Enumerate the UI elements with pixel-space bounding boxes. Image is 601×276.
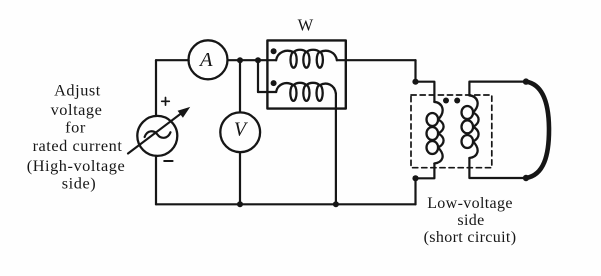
svg-text:for: for [65, 118, 86, 137]
wattmeter current coil loop 3 [317, 52, 323, 68]
wattmeter current coil humps [276, 50, 337, 60]
wattmeter current coil loop 2 [303, 52, 309, 68]
wattmeter current coil loop 1 [291, 52, 297, 68]
junction node at ammeter-voltmeter [237, 57, 243, 63]
wire from wattmeter top coil out to right [337, 59, 416, 61]
svg-text:side): side) [62, 174, 96, 193]
svg-text:Adjust: Adjust [54, 81, 101, 100]
wire top-left horizontal from left vertical to ammeter [156, 59, 189, 61]
annotation left: Adjust voltage for rated current (High-voltage side) [27, 81, 125, 193]
annotation right: Low-voltage side (short circuit) [424, 195, 517, 246]
wattmeter voltage coil loop 2 [303, 85, 309, 101]
transformer secondary loop 1 [462, 106, 474, 119]
source plus sign [162, 98, 170, 106]
transformer T1 dashed enclosure [411, 95, 492, 168]
wire left vertical upper (source top to top wire) [155, 60, 157, 116]
transformer secondary polarity dot [454, 98, 460, 104]
transformer primary loop 2 [427, 127, 439, 140]
source sine symbol [145, 131, 171, 138]
wire left coil bottom to primary bottom terminal [416, 164, 435, 179]
short-circuit bottom node [523, 175, 529, 181]
transformer secondary coil humps [469, 95, 478, 158]
source G1 circle (adjustable AC source) [137, 116, 177, 156]
transformer primary top terminal node [412, 79, 418, 85]
wire wattmeter voltage branch vertical [257, 60, 259, 92]
ammeter A1 circle [189, 40, 228, 79]
wire primary bottom terminal down to bottom wire [414, 178, 416, 204]
wire voltmeter branch upper [239, 60, 241, 112]
wattmeter voltage coil loop 1 [290, 85, 296, 101]
short-circuit top node [523, 78, 529, 84]
wattmeter current coil polarity dot [271, 48, 277, 54]
transformer secondary loop 3 [462, 135, 474, 148]
transformer secondary loop 2 [462, 120, 474, 133]
wire from primary top terminal to left coil [416, 82, 435, 102]
wattmeter voltage coil polarity dot [271, 80, 277, 86]
wire vertical down to transformer primary top terminal [414, 60, 416, 81]
transformer primary coil humps [434, 102, 443, 164]
wire voltmeter branch lower [239, 152, 241, 204]
wire left vertical lower (source bottom to bottom wire) [155, 156, 157, 204]
wattmeter voltage coil loop 3 [317, 85, 323, 101]
svg-text:A: A [198, 49, 213, 71]
wattmeter W1 box [267, 40, 345, 108]
svg-text:side: side [457, 212, 484, 229]
source adjust arrow shaft [128, 111, 185, 154]
voltmeter V1 circle [220, 112, 260, 152]
wire secondary top to short-circuit node [469, 82, 526, 96]
wattmeter voltage coil humps [276, 83, 336, 94]
transformer primary loop 3 [427, 141, 439, 154]
wire top from ammeter to wattmeter box [228, 59, 277, 61]
svg-text:V: V [234, 119, 249, 141]
wire bottom horizontal [156, 203, 416, 205]
svg-text:(High-voltage: (High-voltage [27, 156, 125, 175]
wire secondary bottom to short-circuit node [469, 158, 526, 178]
transformer primary polarity dot [443, 98, 449, 104]
wire wattmeter voltage coil return to bottom wire [335, 94, 337, 205]
junction node at wattmeter voltage tap [255, 57, 261, 63]
svg-text:rated current: rated current [33, 136, 123, 155]
source minus sign [164, 160, 172, 162]
svg-text:(short circuit): (short circuit) [424, 229, 517, 246]
transformer primary bottom terminal node [412, 175, 418, 181]
svg-text:W: W [298, 15, 314, 34]
short-circuit thick arc [526, 82, 549, 178]
svg-text:voltage: voltage [51, 100, 103, 119]
svg-text:Low-voltage: Low-voltage [427, 195, 513, 212]
source arrow head [178, 107, 191, 118]
transformer primary loop 1 [427, 113, 439, 126]
junction node voltmeter bottom [237, 201, 243, 207]
wire wattmeter voltage branch horizontal into box [258, 91, 276, 93]
junction node wattmeter return bottom [333, 201, 339, 207]
